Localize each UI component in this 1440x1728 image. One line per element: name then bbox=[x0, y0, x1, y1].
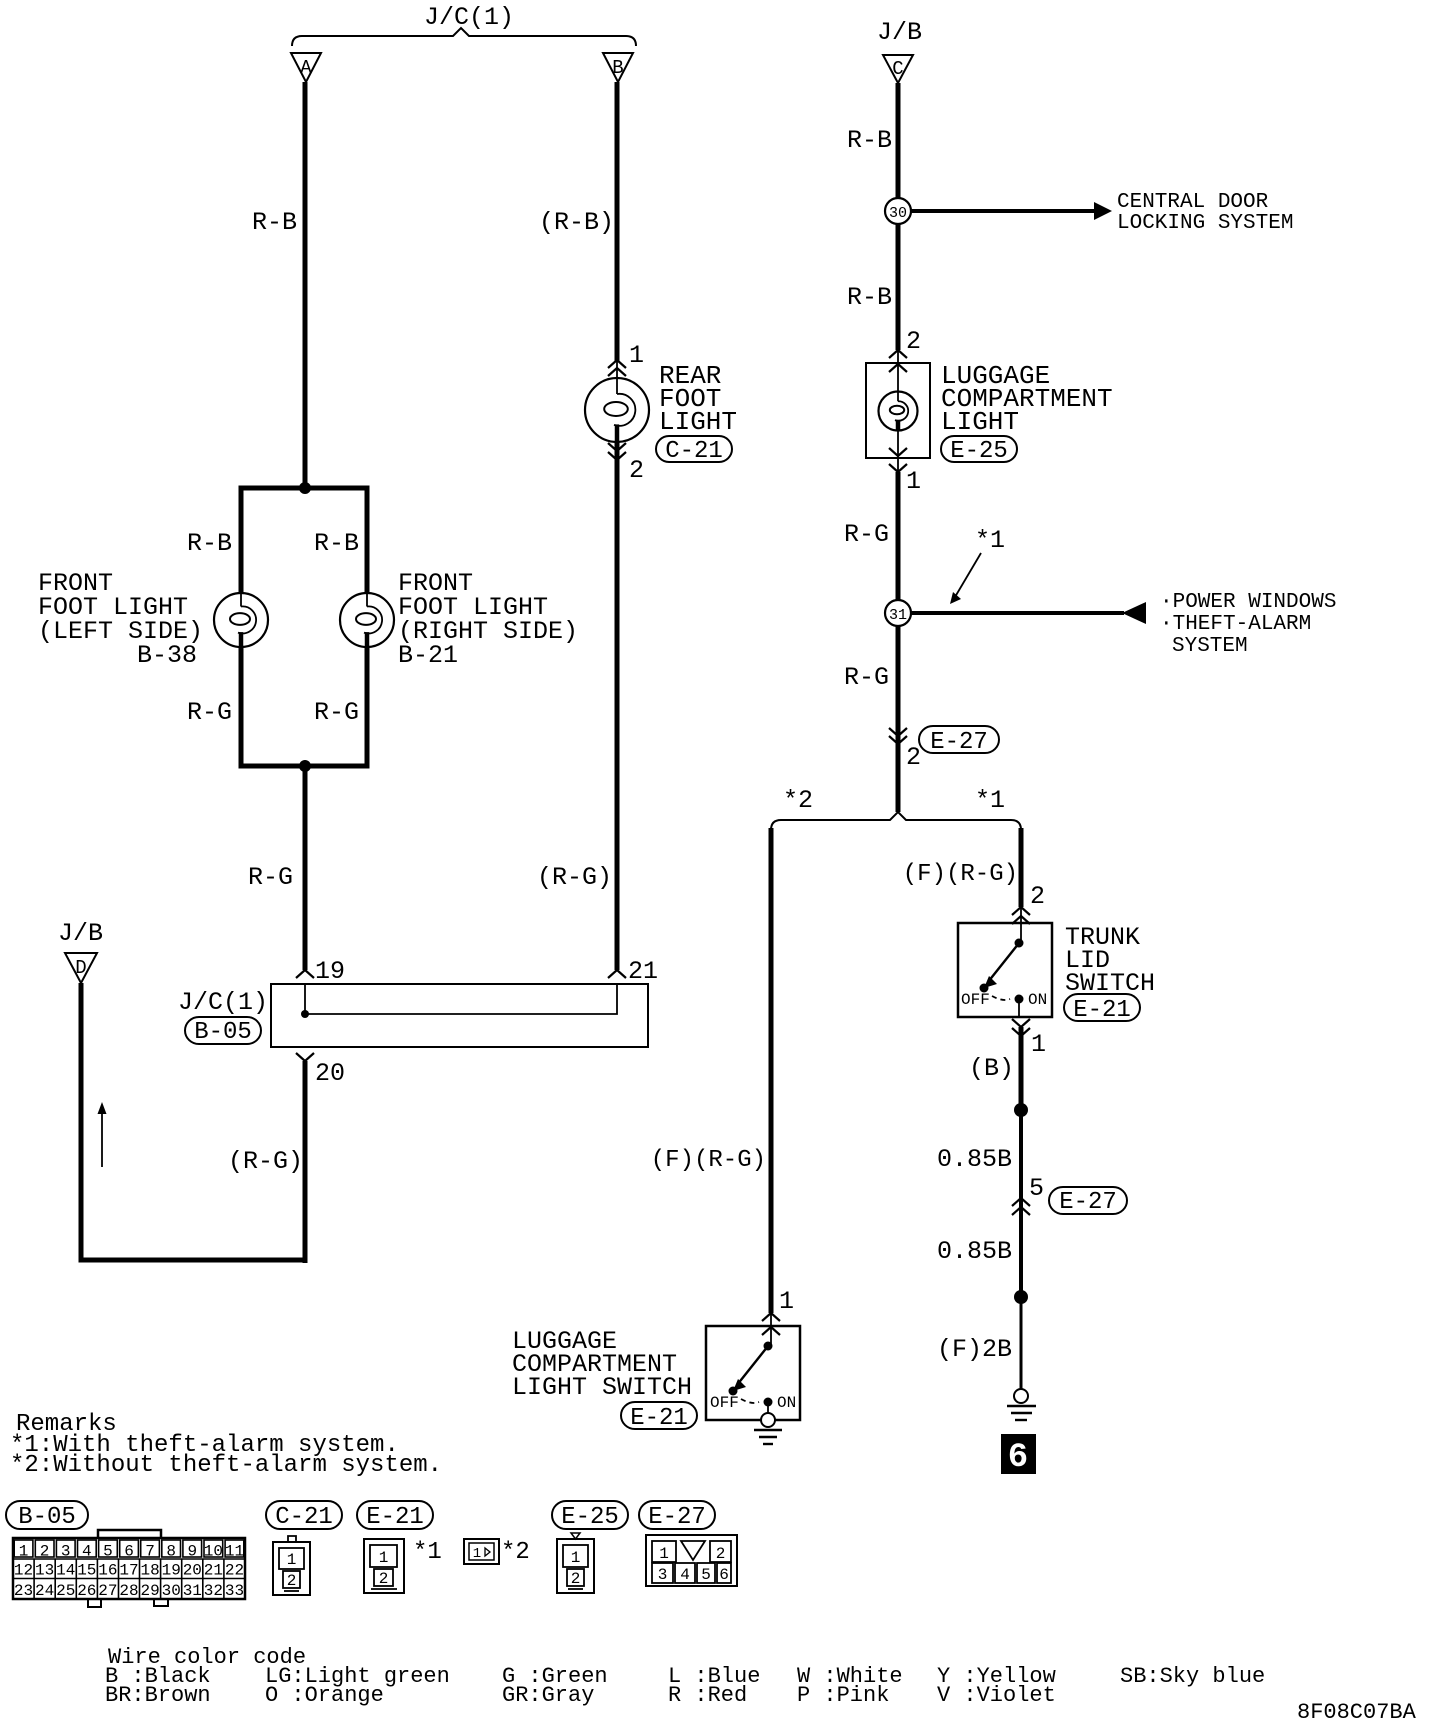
svg-text:1: 1 bbox=[379, 1549, 389, 1567]
svg-text:R-B: R-B bbox=[847, 126, 892, 155]
splice node 31 bbox=[885, 600, 911, 626]
connector E-25 pinout drawing bbox=[557, 1533, 594, 1593]
terminal C (J/B) bbox=[883, 55, 913, 83]
svg-text:5: 5 bbox=[103, 1543, 113, 1561]
luggage compartment light switch E-21 box bbox=[706, 1326, 800, 1420]
wire E-27 pin 2 to split bbox=[896, 744, 901, 812]
current direction arrow bbox=[98, 1102, 107, 1167]
split bracket *2 / *1 bbox=[771, 812, 1021, 830]
connector code B-05 bbox=[185, 1017, 261, 1044]
svg-text:(B): (B) bbox=[969, 1054, 1014, 1083]
svg-text:J/C(1): J/C(1) bbox=[424, 3, 514, 32]
svg-text:R-B: R-B bbox=[252, 208, 297, 237]
connector E-27 pinout drawing bbox=[646, 1535, 737, 1586]
label LUGGAGE COMPARTMENT LIGHT bbox=[941, 361, 1113, 437]
wire left branch to luggage switch (F)(R-G) bbox=[769, 828, 774, 1313]
svg-text:J/C(1): J/C(1) bbox=[178, 988, 268, 1017]
junction dot loop top bbox=[299, 482, 311, 494]
svg-text:E-27: E-27 bbox=[1059, 1189, 1117, 1216]
svg-text:SYSTEM: SYSTEM bbox=[1172, 635, 1248, 658]
junction dot upper (0.85B) bbox=[1014, 1103, 1028, 1117]
svg-text:B-05: B-05 bbox=[194, 1019, 252, 1046]
luggage compartment light bulb bbox=[879, 392, 918, 431]
svg-text:B-05: B-05 bbox=[18, 1504, 76, 1531]
svg-text:O :Orange: O :Orange bbox=[265, 1683, 384, 1708]
svg-text:21: 21 bbox=[628, 957, 658, 986]
svg-text:C: C bbox=[892, 58, 903, 80]
svg-text:26: 26 bbox=[77, 1582, 96, 1600]
harness arrow above E-25 box bbox=[889, 350, 907, 358]
svg-text:LIGHT SWITCH: LIGHT SWITCH bbox=[512, 1373, 692, 1402]
connector code C-21 (pinout) bbox=[266, 1501, 342, 1529]
junction dot lower bbox=[1014, 1290, 1028, 1304]
svg-text:2: 2 bbox=[1030, 882, 1045, 911]
wire splice 30 to luggage compartment light (R-B) bbox=[896, 224, 901, 350]
svg-text:*2:Without theft-alarm system.: *2:Without theft-alarm system. bbox=[10, 1452, 442, 1479]
junction connector J/C(1) B-05 box bbox=[271, 984, 648, 1047]
svg-text:J/B: J/B bbox=[877, 18, 922, 47]
svg-text:LOCKING SYSTEM: LOCKING SYSTEM bbox=[1117, 212, 1293, 235]
connector E-21 pinout drawing bbox=[364, 1539, 404, 1593]
svg-text:5: 5 bbox=[1029, 1174, 1044, 1203]
svg-text:B-38: B-38 bbox=[137, 641, 197, 670]
harness arrows pin 1 rear foot light bbox=[608, 360, 626, 368]
svg-text:C-21: C-21 bbox=[275, 1504, 333, 1531]
svg-text:14: 14 bbox=[56, 1562, 75, 1580]
svg-text:28: 28 bbox=[119, 1582, 138, 1600]
harness arrow inside luggage switch box bbox=[762, 1327, 780, 1335]
svg-text:R-G: R-G bbox=[844, 663, 889, 692]
luggage switch common contact bbox=[764, 1342, 773, 1351]
svg-text:3: 3 bbox=[658, 1566, 668, 1584]
svg-text:2: 2 bbox=[716, 1545, 726, 1563]
junction dot loop bottom bbox=[299, 760, 311, 772]
svg-text:22: 22 bbox=[225, 1562, 244, 1580]
label LUGGAGE COMPARTMENT LIGHT SWITCH bbox=[512, 1327, 692, 1402]
label TRUNK LID SWITCH bbox=[1065, 923, 1155, 998]
svg-text:BR:Brown: BR:Brown bbox=[105, 1683, 211, 1708]
ground E-27 branch bbox=[1007, 1389, 1036, 1420]
dashed travel arc (trunk switch) bbox=[992, 996, 1010, 1000]
svg-text:7: 7 bbox=[145, 1543, 155, 1561]
svg-text:1: 1 bbox=[629, 341, 644, 370]
luggage switch ON contact dot bbox=[764, 1398, 773, 1407]
wire E-25 pin 1 to splice 31 (R-G) bbox=[896, 472, 901, 600]
svg-text:5: 5 bbox=[701, 1566, 711, 1584]
svg-text:27: 27 bbox=[98, 1582, 117, 1600]
svg-text:P :Pink: P :Pink bbox=[797, 1683, 889, 1708]
harness arrow below E-25 box bbox=[889, 464, 907, 472]
label POWER WINDOWS THEFT-ALARM SYSTEM bbox=[1160, 591, 1336, 658]
wire (F)2B to ground bbox=[1020, 1297, 1023, 1389]
svg-text:OFF: OFF bbox=[961, 991, 990, 1009]
svg-text:13: 13 bbox=[35, 1562, 54, 1580]
svg-text:R-B: R-B bbox=[314, 529, 359, 558]
wire terminal B down to rear foot light (R-B) bbox=[615, 82, 620, 362]
svg-text:B-21: B-21 bbox=[398, 641, 458, 670]
front foot light (left side) B-38 bulb bbox=[214, 593, 268, 647]
luggage compartment light E-25 box bbox=[866, 363, 930, 458]
svg-text:R :Red: R :Red bbox=[668, 1683, 747, 1708]
harness arrows E-27 pin 2 bbox=[889, 728, 907, 736]
wire splice 31 to power windows / theft-alarm system bbox=[911, 602, 1146, 624]
wire loop bottom to J/C(1) pin 19 (R-G) bbox=[303, 766, 308, 970]
svg-text:32: 32 bbox=[204, 1582, 223, 1600]
wire color code table bbox=[105, 1645, 1265, 1708]
junction dot internal bus bbox=[301, 1010, 309, 1018]
wire terminal A down to foot light loop (R-B) bbox=[303, 82, 308, 488]
svg-text:3: 3 bbox=[61, 1543, 71, 1561]
svg-text:R-G: R-G bbox=[844, 520, 889, 549]
svg-text:4: 4 bbox=[680, 1566, 690, 1584]
svg-text:25: 25 bbox=[56, 1582, 75, 1600]
svg-text:A: A bbox=[300, 57, 312, 79]
svg-text:6: 6 bbox=[719, 1566, 729, 1584]
svg-text:E-25: E-25 bbox=[561, 1504, 619, 1531]
splice node 30 bbox=[885, 198, 911, 224]
bracket J/C(1) span A-B bbox=[292, 28, 636, 46]
svg-text:·POWER WINDOWS: ·POWER WINDOWS bbox=[1160, 591, 1336, 614]
svg-text:LIGHT: LIGHT bbox=[941, 407, 1019, 437]
connector code E-21 (pinout) bbox=[357, 1501, 433, 1529]
wire pin 20 down (R-G) bbox=[303, 1061, 308, 1263]
connector code B-05 (pinout) bbox=[6, 1501, 88, 1529]
svg-text:E-21: E-21 bbox=[1073, 997, 1131, 1024]
svg-text:31: 31 bbox=[889, 607, 907, 624]
svg-text:30: 30 bbox=[889, 205, 907, 222]
svg-text:·THEFT-ALARM: ·THEFT-ALARM bbox=[1160, 613, 1311, 636]
harness arrow pin 19 bbox=[296, 970, 314, 978]
svg-text:(F)2B: (F)2B bbox=[937, 1335, 1012, 1364]
luggage switch OFF contact dot bbox=[729, 1387, 738, 1396]
svg-text:*2: *2 bbox=[783, 786, 813, 815]
svg-text:1: 1 bbox=[1031, 1030, 1046, 1059]
svg-text:17: 17 bbox=[119, 1562, 138, 1580]
connector code E-25 (pinout) bbox=[552, 1501, 628, 1529]
label FRONT FOOT LIGHT (RIGHT SIDE) bbox=[398, 569, 578, 646]
internal bus pin19-pin21 bbox=[301, 984, 617, 1018]
svg-text:E-21: E-21 bbox=[630, 1405, 688, 1432]
svg-text:30: 30 bbox=[162, 1582, 181, 1600]
svg-text:E-27: E-27 bbox=[930, 729, 988, 756]
harness arrows above trunk switch box bbox=[1012, 907, 1030, 915]
svg-text:R-B: R-B bbox=[187, 529, 232, 558]
connector code E-27 (pin 5) bbox=[1049, 1187, 1127, 1214]
svg-text:*1: *1 bbox=[975, 526, 1005, 555]
connector code E-27 (pinout) bbox=[639, 1501, 715, 1529]
svg-text:R-B: R-B bbox=[847, 283, 892, 312]
svg-text:2: 2 bbox=[287, 1572, 297, 1590]
connector code C-21 bbox=[656, 436, 732, 462]
svg-text:*1: *1 bbox=[413, 1539, 442, 1566]
svg-text:B: B bbox=[612, 57, 623, 79]
svg-text:*1: *1 bbox=[975, 786, 1005, 815]
connector code E-27 (pin 2) bbox=[919, 726, 999, 753]
harness arrows E-27 pin 5 bbox=[1012, 1198, 1030, 1206]
svg-text:E-21: E-21 bbox=[366, 1504, 424, 1531]
svg-text:ON: ON bbox=[777, 1394, 796, 1412]
svg-text:2: 2 bbox=[571, 1570, 581, 1588]
svg-text:2: 2 bbox=[40, 1543, 50, 1561]
svg-text:2: 2 bbox=[379, 1570, 389, 1588]
svg-text:20: 20 bbox=[315, 1059, 345, 1088]
svg-text:18: 18 bbox=[140, 1562, 159, 1580]
dashed travel arc (luggage switch) bbox=[741, 1399, 759, 1403]
connector B-05 pinout drawing bbox=[13, 1530, 245, 1607]
label FRONT FOOT LIGHT (LEFT SIDE) bbox=[38, 569, 203, 646]
svg-text:10: 10 bbox=[204, 1543, 223, 1561]
svg-text:(R-B): (R-B) bbox=[539, 208, 614, 237]
harness arrows pin 2 rear foot light bbox=[608, 443, 626, 451]
connector 1-pin pinout *2 bbox=[464, 1539, 499, 1564]
svg-text:LIGHT: LIGHT bbox=[659, 407, 737, 437]
svg-text:(F)(R-G): (F)(R-G) bbox=[903, 861, 1018, 888]
trunk switch arm with motion arrow bbox=[980, 943, 1020, 993]
svg-text:23: 23 bbox=[14, 1582, 33, 1600]
svg-text:(R-G): (R-G) bbox=[537, 863, 612, 892]
front foot light (right side) B-21 bulb bbox=[340, 593, 394, 647]
svg-text:R-G: R-G bbox=[248, 863, 293, 892]
svg-text:2: 2 bbox=[906, 743, 921, 772]
wire trunk switch pin 1 down (B) bbox=[1019, 1027, 1024, 1110]
svg-text:E-25: E-25 bbox=[950, 438, 1008, 465]
svg-text:8: 8 bbox=[166, 1543, 176, 1561]
front foot light parallel loop wiring bbox=[241, 488, 367, 766]
terminal D (J/B) bbox=[65, 953, 97, 983]
svg-text:11: 11 bbox=[225, 1543, 244, 1561]
svg-text:2: 2 bbox=[629, 456, 644, 485]
connector code E-25 bbox=[941, 436, 1017, 462]
remarks block bbox=[10, 1411, 442, 1479]
svg-text:0.85B: 0.85B bbox=[937, 1145, 1012, 1174]
svg-text:D: D bbox=[75, 957, 86, 979]
svg-text:6: 6 bbox=[1008, 1439, 1028, 1477]
label *1 with pointer arrow bbox=[950, 526, 1005, 604]
svg-text:12: 12 bbox=[14, 1562, 33, 1580]
svg-text:16: 16 bbox=[98, 1562, 117, 1580]
svg-text:SB:Sky blue: SB:Sky blue bbox=[1120, 1664, 1265, 1689]
wire terminal D down and right to pin 20 wire bbox=[81, 983, 305, 1260]
harness arrow inside E-25 box top bbox=[889, 364, 907, 372]
wire terminal C to splice 30 (R-B) bbox=[896, 83, 901, 198]
svg-text:1: 1 bbox=[287, 1551, 297, 1569]
svg-text:OFF: OFF bbox=[710, 1394, 739, 1412]
svg-text:1: 1 bbox=[473, 1546, 481, 1562]
svg-text:15: 15 bbox=[77, 1562, 96, 1580]
svg-text:0.85B: 0.85B bbox=[937, 1237, 1012, 1266]
svg-text:19: 19 bbox=[162, 1562, 181, 1580]
svg-text:(F)(R-G): (F)(R-G) bbox=[651, 1147, 766, 1174]
svg-text:V :Violet: V :Violet bbox=[937, 1683, 1056, 1708]
svg-text:2: 2 bbox=[906, 327, 921, 356]
wire splice 31 down to E-27 pin 2 (R-G) bbox=[896, 626, 901, 744]
svg-text:1: 1 bbox=[779, 1287, 794, 1316]
harness arrow pin 21 bbox=[608, 970, 626, 978]
rear foot light C-21 bulb bbox=[585, 362, 649, 442]
trunk lid switch E-21 box bbox=[958, 923, 1052, 1017]
svg-text:*2: *2 bbox=[501, 1539, 530, 1566]
svg-text:33: 33 bbox=[225, 1582, 244, 1600]
svg-text:CENTRAL DOOR: CENTRAL DOOR bbox=[1117, 191, 1269, 214]
svg-text:24: 24 bbox=[35, 1582, 54, 1600]
label CENTRAL DOOR LOCKING SYSTEM bbox=[1117, 191, 1293, 235]
svg-text:E-27: E-27 bbox=[648, 1504, 706, 1531]
svg-text:1: 1 bbox=[19, 1543, 29, 1561]
harness arrow inside E-25 box bottom bbox=[889, 448, 907, 456]
luggage switch arm with motion arrow bbox=[729, 1346, 769, 1396]
wire 0.85B below E-27 bbox=[1019, 1198, 1023, 1297]
svg-text:9: 9 bbox=[187, 1543, 197, 1561]
terminal A (J/C(1)) bbox=[291, 53, 321, 82]
wire rear foot light to J/C(1) pin 21 (R-G) bbox=[615, 442, 620, 970]
svg-text:C-21: C-21 bbox=[665, 438, 723, 465]
svg-text:(R-G): (R-G) bbox=[228, 1147, 303, 1176]
trunk switch ON contact dot bbox=[1015, 995, 1024, 1004]
svg-text:29: 29 bbox=[140, 1582, 159, 1600]
connector code E-21 (luggage switch) bbox=[621, 1402, 697, 1429]
trunk switch common contact bbox=[1015, 939, 1024, 948]
ground at luggage switch bbox=[754, 1402, 782, 1444]
connector code E-21 (trunk switch) bbox=[1064, 994, 1140, 1021]
label REAR FOOT LIGHT bbox=[659, 361, 737, 437]
harness arrows below trunk switch box bbox=[1012, 1019, 1030, 1027]
svg-text:31: 31 bbox=[183, 1582, 202, 1600]
svg-text:4: 4 bbox=[82, 1543, 92, 1561]
wire 0.85B to E-27 pin 5 bbox=[1019, 1110, 1023, 1198]
svg-text:R-G: R-G bbox=[314, 698, 359, 727]
harness arrow pin 20 bbox=[296, 1053, 314, 1061]
svg-text:6: 6 bbox=[124, 1543, 134, 1561]
harness arrow above luggage switch box bbox=[762, 1313, 780, 1321]
svg-text:R-G: R-G bbox=[187, 698, 232, 727]
terminal B (J/C(1)) bbox=[603, 53, 633, 82]
svg-text:20: 20 bbox=[183, 1562, 202, 1580]
svg-text:ON: ON bbox=[1028, 991, 1047, 1009]
svg-text:J/B: J/B bbox=[58, 919, 103, 948]
svg-text:8F08C07BA: 8F08C07BA bbox=[1297, 1700, 1417, 1725]
ground reference number 6 bbox=[1001, 1434, 1036, 1477]
svg-text:1: 1 bbox=[906, 467, 921, 496]
connector C-21 pinout drawing bbox=[273, 1536, 310, 1595]
svg-text:1: 1 bbox=[571, 1549, 581, 1567]
trunk switch OFF contact dot bbox=[980, 984, 989, 993]
wire right branch to trunk lid switch (F)(R-G) bbox=[1019, 828, 1024, 907]
svg-text:21: 21 bbox=[204, 1562, 223, 1580]
svg-text:1: 1 bbox=[659, 1545, 669, 1563]
wire splice 30 to central door locking system bbox=[911, 202, 1112, 220]
svg-text:19: 19 bbox=[315, 957, 345, 986]
svg-text:GR:Gray: GR:Gray bbox=[502, 1683, 594, 1708]
